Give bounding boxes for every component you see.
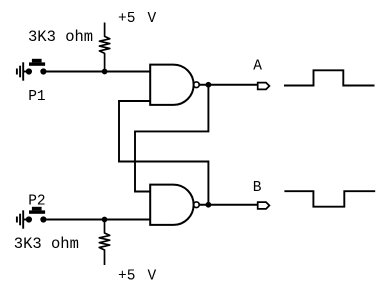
node B junction — [206, 202, 212, 208]
resistor R2 — [99, 220, 109, 266]
waveform B — [284, 191, 375, 207]
svg-text:+5: +5 — [118, 11, 135, 27]
waveform A — [284, 70, 375, 85]
node A junction — [206, 82, 212, 88]
node junction R2/wire — [102, 217, 108, 223]
wire feedback NAND1 out to NAND2 top input — [135, 85, 208, 192]
ground (P2) — [17, 210, 29, 228]
svg-text:+5: +5 — [118, 269, 135, 285]
NAND gate U1A — [150, 65, 199, 105]
svg-text:3K3 ohm: 3K3 ohm — [14, 235, 79, 253]
ground (P1) — [17, 62, 29, 80]
pushbutton P2 — [26, 207, 47, 223]
svg-text:V: V — [148, 11, 157, 27]
wire NAND1 output — [199, 84, 258, 86]
wire P2 to NAND2 input B — [43, 219, 150, 221]
resistor R1 — [99, 23, 109, 72]
svg-text:3K3 ohm: 3K3 ohm — [28, 28, 93, 46]
svg-text:P1: P1 — [28, 89, 45, 105]
wire P1 to NAND1 input A — [43, 71, 150, 73]
svg-text:B: B — [253, 180, 262, 196]
NAND gate U1B — [150, 185, 199, 225]
svg-text:A: A — [253, 59, 262, 75]
svg-text:V: V — [148, 269, 157, 285]
pushbutton P1 — [26, 59, 47, 75]
wire NAND2 output — [199, 204, 258, 206]
wire feedback NAND2 out to NAND1 bottom input — [119, 101, 208, 205]
output pad B — [258, 202, 270, 209]
svg-text:P2: P2 — [28, 193, 45, 209]
node junction R1/wire — [102, 69, 108, 75]
output pad A — [258, 83, 270, 90]
